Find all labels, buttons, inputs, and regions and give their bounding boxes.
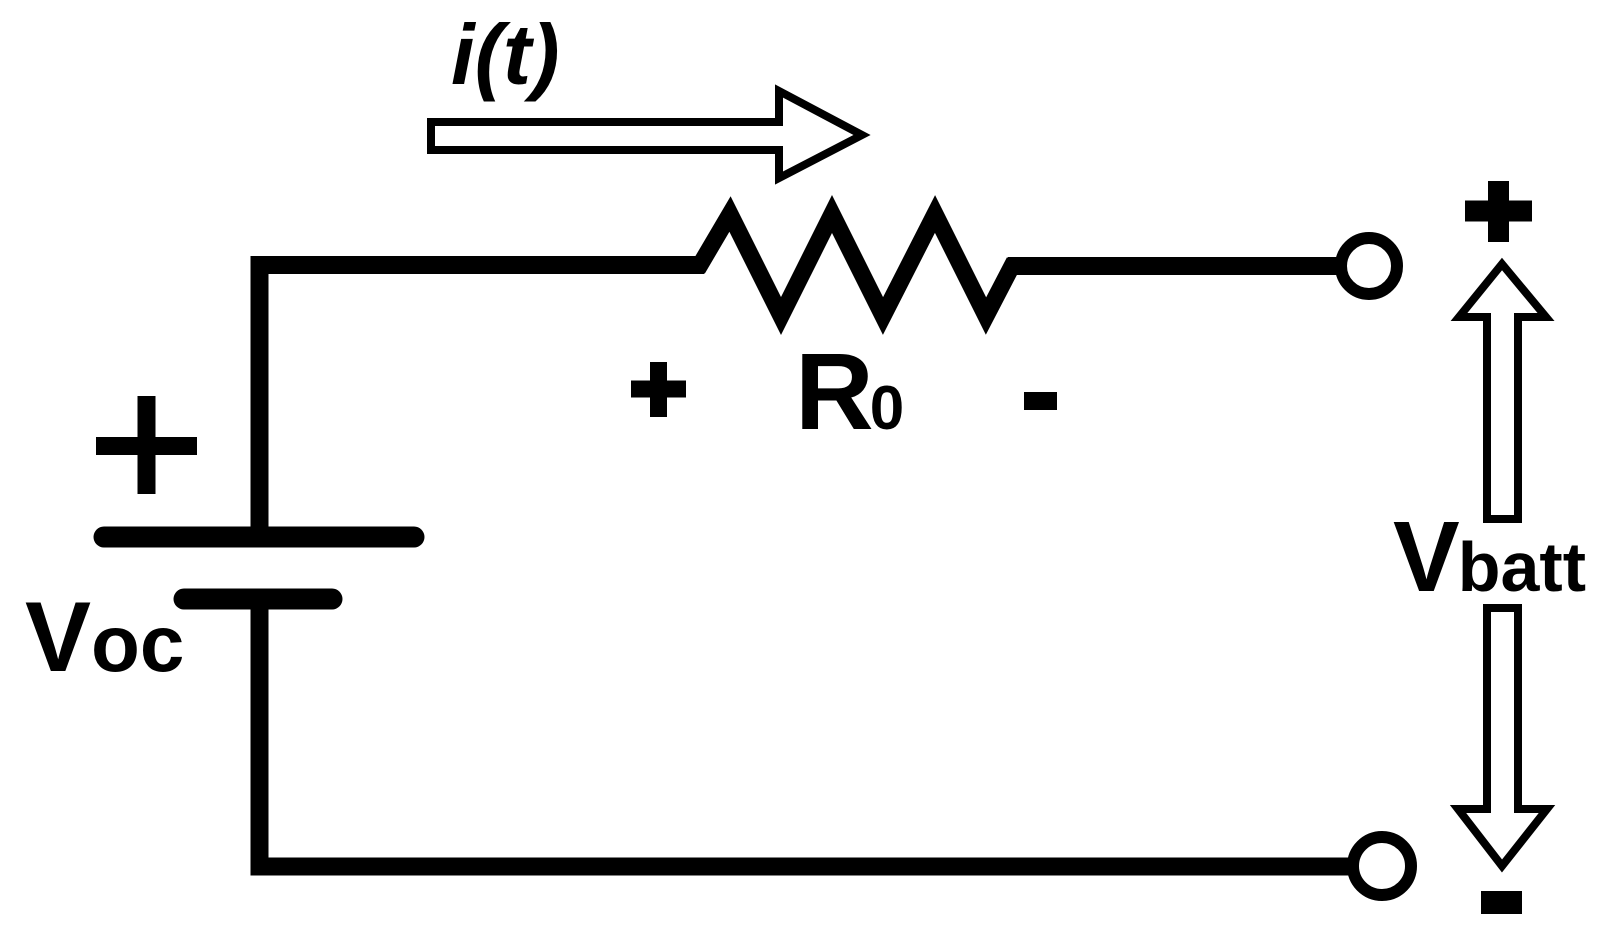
battery Voc top plate (positive, long) [104,527,414,548]
svg-text:i(t): i(t) [451,8,560,103]
terminal circle + (top right) [1341,238,1397,294]
label + (output terminal top right) [1465,181,1532,242]
wire from battery + terminal up and across to resistor [260,265,705,537]
Vbatt up arrow [1459,264,1546,519]
svg-text:Voc: Voc [25,581,184,692]
wire from resistor to + output terminal [1008,257,1343,275]
wire from battery - terminal down and across to - output terminal [260,599,1353,867]
label - (output terminal bottom right) [1481,891,1522,914]
Vbatt down arrow [1458,608,1547,866]
current arrow i(t) [431,91,862,178]
svg-text:R0: R0 [795,331,904,453]
resistor R0 zigzag [678,214,1060,316]
battery Voc bottom plate (negative, short) [184,589,332,610]
label - (resistor right polarity) [1024,392,1057,410]
label + (resistor left polarity) [631,362,686,417]
terminal circle - (bottom right) [1353,837,1411,895]
battery + polarity mark [96,396,197,494]
